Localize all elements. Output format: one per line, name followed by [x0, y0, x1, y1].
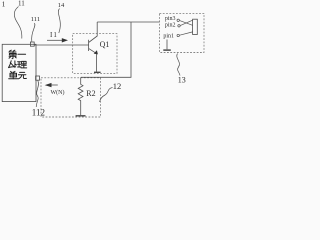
svg-text:pin3: pin3 [165, 16, 176, 22]
connector body [193, 19, 198, 34]
svg-text:12: 12 [113, 81, 122, 91]
wire branch down to R2 [81, 22, 131, 77]
svg-text:112: 112 [32, 107, 45, 117]
leader 12 [100, 88, 113, 103]
terminal circle pin1 [177, 34, 179, 36]
svg-text:14: 14 [58, 2, 65, 9]
terminal circle pin2 [178, 25, 180, 27]
dashed box 14 (driving circuit) [73, 34, 117, 74]
svg-text:111: 111 [31, 16, 40, 23]
transistor Q1 [89, 22, 98, 72]
leader 13 [177, 54, 180, 76]
resistor R2 [78, 77, 83, 115]
current direction arrow I1 [47, 38, 68, 42]
wire collector to connector (top rail) [97, 21, 159, 23]
ground (emitter) [94, 71, 101, 73]
svg-text:Q1: Q1 [100, 40, 110, 49]
svg-text:11: 11 [18, 0, 25, 8]
terminal square 112 [36, 76, 40, 80]
ground (R2) [76, 115, 86, 117]
terminal circle pin3 [177, 19, 179, 21]
svg-text:R2: R2 [86, 89, 95, 98]
leader 11 [14, 7, 22, 39]
svg-text:1: 1 [2, 0, 6, 9]
wire from 111 to Q1 base [34, 44, 88, 46]
ground (pin1) [166, 40, 168, 50]
svg-text:pin1: pin1 [163, 33, 174, 39]
svg-text:I1: I1 [50, 31, 58, 39]
terminal square 111 [30, 42, 34, 46]
svg-text:13: 13 [178, 76, 186, 85]
leader 14 [58, 9, 60, 34]
leader 112 [36, 81, 38, 108]
text 第一 [9, 50, 26, 59]
svg-text:W(N): W(N) [51, 89, 65, 96]
wire pin1 to connector [180, 32, 193, 35]
text 单元 [9, 71, 27, 79]
text 处理 [9, 61, 27, 68]
wiper arrow W(N) [45, 83, 58, 87]
dashed box 12 (resistor unit) [41, 78, 101, 117]
wire pin2 to connector (crossover) [181, 20, 193, 25]
leader 111 [32, 23, 35, 42]
svg-text:pin2: pin2 [165, 22, 176, 28]
first processing unit box [2, 44, 36, 101]
dashed box 13 (connector) [160, 13, 205, 52]
wire pin3 to connector (crossover) [180, 21, 193, 26]
